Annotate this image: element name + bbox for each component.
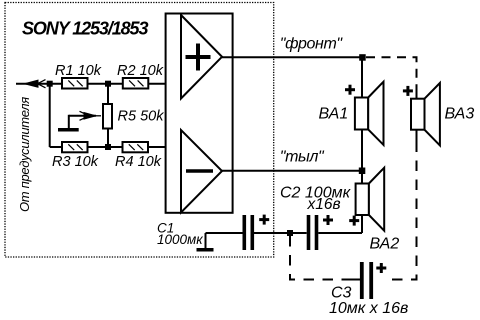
svg-text:R4 10k: R4 10k	[115, 154, 162, 170]
svg-text:10мк х 16в: 10мк х 16в	[329, 300, 408, 317]
node junction C1-C2 / C3 branch	[287, 230, 293, 236]
polarity plus BA3	[403, 86, 413, 96]
wire C3 left lead	[352, 279, 360, 281]
R5 wiper arrow and terminal bar	[58, 111, 101, 129]
node junction top-left	[47, 81, 53, 87]
speaker BA1	[355, 82, 384, 145]
resistor R4	[123, 142, 149, 152]
op-amp A1 front channel triangle	[181, 15, 222, 99]
svg-text:От предусилителя: От предусилителя	[17, 97, 32, 212]
potentiometer R5	[103, 104, 112, 129]
wire bottom rail to amp	[50, 146, 166, 148]
node rear output junction	[359, 168, 366, 175]
op-amp block outline	[166, 14, 233, 213]
capacitor C2	[309, 215, 317, 250]
wire left branch vertical	[49, 84, 51, 147]
resistor R2	[123, 78, 149, 89]
wire BA3 top lead	[416, 88, 418, 99]
wire dashed junction to C3	[290, 236, 353, 280]
input arrow (to preamp)	[25, 80, 46, 88]
polarity plus C3	[376, 263, 386, 273]
wire front output	[222, 56, 363, 58]
speaker BA2	[356, 168, 385, 231]
svg-text:ВА2: ВА2	[370, 236, 400, 253]
svg-text:SONY 1253/1853: SONY 1253/1853	[22, 19, 148, 39]
wire R5 branch vertical	[107, 84, 109, 147]
speaker BA3	[411, 83, 440, 145]
node junction R1-R2/R5	[105, 81, 111, 87]
ground symbol	[197, 233, 214, 250]
svg-text:1000мк: 1000мк	[157, 232, 203, 247]
svg-text:R2 10k: R2 10k	[117, 63, 164, 79]
wire C1 to C2	[254, 232, 307, 234]
capacitor C3	[362, 262, 371, 299]
resistor R3	[62, 142, 88, 152]
polarity plus BA1	[345, 85, 355, 95]
wire rear output	[222, 170, 362, 172]
plus symbol in front amp	[186, 44, 211, 71]
svg-text:"тыл": "тыл"	[280, 149, 325, 166]
polarity plus BA2	[349, 216, 359, 226]
wire speakers chain vertical	[361, 57, 363, 233]
wire BA3 bottom lead	[416, 130, 418, 148]
svg-text:ВА3: ВА3	[445, 105, 475, 122]
module outline SONY 1253/1853 (dashed box)	[5, 3, 274, 258]
wire dashed front to BA3	[366, 57, 417, 90]
op-amp A2 rear channel triangle	[181, 130, 222, 213]
wire C2 to BA2	[318, 232, 362, 234]
polarity plus C2	[323, 215, 333, 225]
wire top rail input to amp	[16, 83, 166, 85]
svg-text:"фронт": "фронт"	[280, 36, 344, 53]
svg-text:R5 50k: R5 50k	[118, 109, 165, 125]
node junction R3-R4/R5	[105, 144, 111, 150]
minus symbol in rear amp	[186, 169, 213, 173]
polarity plus C1	[259, 215, 269, 225]
node front output junction	[359, 54, 366, 61]
wire dashed BA3 to C3	[392, 148, 417, 280]
svg-text:х16в: х16в	[307, 196, 341, 213]
svg-text:R3 10k: R3 10k	[52, 154, 99, 170]
wire ground to C1	[206, 232, 243, 234]
resistor R1	[62, 78, 88, 89]
svg-text:ВА1: ВА1	[319, 106, 349, 123]
capacitor C1	[244, 215, 252, 250]
svg-text:R1 10k: R1 10k	[55, 63, 102, 79]
